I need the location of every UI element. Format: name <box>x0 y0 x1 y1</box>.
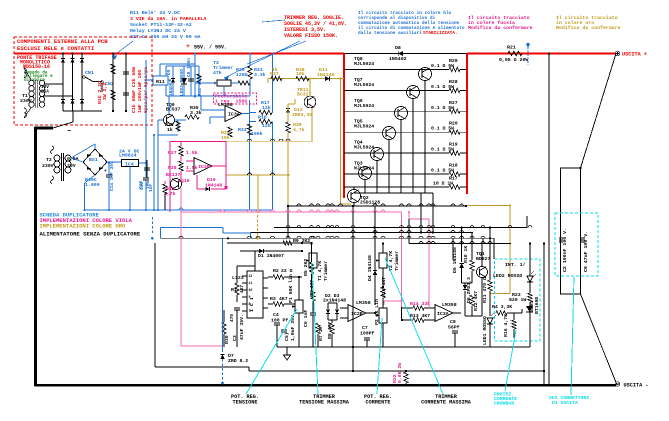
svg-text:C2 100nF 100 V.: C2 100nF 100 V. <box>562 228 568 272</box>
svg-text:C8 100n: C8 100n <box>186 58 192 77</box>
svg-text:230V: 230V <box>42 163 54 169</box>
svg-text:470: 470 <box>229 314 235 322</box>
svg-text:ALIMENTATORE SENZA DUPLICATORE: ALIMENTATORE SENZA DUPLICATORE <box>40 231 141 238</box>
svg-text:R28: R28 <box>168 165 177 171</box>
svg-text:0.1 Ω 5W: 0.1 Ω 5W <box>431 147 454 153</box>
svg-text:+: + <box>104 169 107 174</box>
svg-text:C5): C5) <box>284 332 290 341</box>
svg-text:1mF 100v1mF 100: 1mF 100v1mF 100 <box>137 70 143 113</box>
svg-text:T1 4,7K: T1 4,7K <box>317 261 323 281</box>
svg-text:CORRENTE MASSIMA: CORRENTE MASSIMA <box>421 400 472 406</box>
svg-text:LED2 ROSSO: LED2 ROSSO <box>493 273 522 279</box>
svg-text:R11 470: R11 470 <box>197 77 203 96</box>
svg-text:BC537: BC537 <box>166 107 181 113</box>
svg-text:D1 1N4007: D1 1N4007 <box>258 253 284 259</box>
svg-text:12: 12 <box>249 274 253 278</box>
svg-text:MDS150-16: MDS150-16 <box>23 64 50 70</box>
svg-text:820 1W: 820 1W <box>509 297 526 303</box>
svg-text:R21: R21 <box>507 45 516 51</box>
svg-text:4K7: 4K7 <box>279 296 288 302</box>
svg-text:12k: 12k <box>262 123 271 129</box>
svg-text:22 Ω: 22 Ω <box>281 268 293 274</box>
svg-text:2SD1128: 2SD1128 <box>360 200 380 206</box>
svg-text:R30: R30 <box>224 335 230 344</box>
svg-text:R16 4,7K: R16 4,7K <box>503 314 509 337</box>
svg-text:Relay LY3NJ DC 24 V: Relay LY3NJ DC 24 V <box>130 28 186 34</box>
svg-text:1N5402: 1N5402 <box>389 56 407 62</box>
svg-text:R33: R33 <box>238 127 247 133</box>
svg-text:12k: 12k <box>262 105 271 111</box>
svg-text:C4: C4 <box>273 312 279 318</box>
svg-text:3.3k: 3.3k <box>190 110 202 116</box>
svg-text:Modifica da confermare: Modifica da confermare <box>556 25 621 31</box>
svg-text:MJL5024: MJL5024 <box>354 61 374 67</box>
svg-text:11: 11 <box>249 281 253 285</box>
svg-text:10k: 10k <box>221 135 230 141</box>
svg-text:1.000: 1.000 <box>85 182 100 188</box>
svg-text:P1 50K lin: P1 50K lin <box>288 274 294 303</box>
svg-text:Socket PT11-13F-32-A2: Socket PT11-13F-32-A2 <box>130 22 192 28</box>
svg-text:R4 3,3K: R4 3,3K <box>492 304 512 310</box>
svg-text:R2: R2 <box>273 268 279 274</box>
svg-text:R11 RelA' 24 V.DC: R11 RelA' 24 V.DC <box>130 10 180 16</box>
svg-text:MJL5024: MJL5024 <box>354 82 374 88</box>
svg-text:DI USCITA: DI USCITA <box>552 400 578 406</box>
svg-text:25A: 25A <box>41 89 49 94</box>
svg-text:C6 1nF: C6 1nF <box>303 310 309 327</box>
svg-text:D5 1N4148: D5 1N4148 <box>452 247 458 273</box>
svg-text:6,8K 2W: 6,8K 2W <box>397 363 403 383</box>
svg-text:IMPLEMENTAZIONI COLORE ORO: IMPLEMENTAZIONI COLORE ORO <box>40 223 127 230</box>
svg-text:T2: T2 <box>46 157 52 163</box>
svg-text:0.1 Ω 5W: 0.1 Ω 5W <box>431 63 454 69</box>
svg-text:R27: R27 <box>168 150 177 156</box>
svg-text:BS1: BS1 <box>89 157 98 163</box>
svg-text:100k: 100k <box>251 131 263 137</box>
svg-text:0.1 Ω 5W: 0.1 Ω 5W <box>431 168 454 174</box>
svg-text:7: 7 <box>249 309 251 313</box>
svg-text:3 VIE da 10A. in PARALLELA: 3 VIE da 10A. in PARALLELA <box>130 16 206 22</box>
svg-text:IC4: IC4 <box>125 161 134 167</box>
svg-text:R13 4K7: R13 4K7 <box>410 313 430 319</box>
svg-text:ZRD3,3V: ZRD3,3V <box>292 112 312 118</box>
svg-text:D8: D8 <box>395 45 401 51</box>
svg-text:dalla tensione ausiliari: dalla tensione ausiliari <box>358 30 422 36</box>
svg-text:USCITA +: USCITA + <box>622 52 647 58</box>
svg-text:8: 8 <box>249 302 251 306</box>
svg-text:IC3B: IC3B <box>198 164 210 170</box>
svg-text:IC2A: IC2A <box>437 311 449 317</box>
svg-text:1k: 1k <box>167 127 173 133</box>
svg-text:0.1 Ω 5W: 0.1 Ω 5W <box>431 84 454 90</box>
svg-text:Modifica da confermare: Modifica da confermare <box>468 25 533 31</box>
svg-text:1N4148: 1N4148 <box>205 183 222 189</box>
svg-text:BC137: BC137 <box>166 172 181 178</box>
svg-text:TENSIONE: TENSIONE <box>233 400 258 406</box>
svg-text:VALORE FISSO 150K.: VALORE FISSO 150K. <box>284 33 338 39</box>
svg-text:INT. 1/: INT. 1/ <box>505 262 526 268</box>
svg-text:120Ω: 120Ω <box>236 72 248 78</box>
svg-text:1N4007: 1N4007 <box>168 79 174 96</box>
svg-text:20V: 20V <box>67 163 76 169</box>
svg-text:10k: 10k <box>296 71 305 77</box>
svg-text:ZRD 8.2: ZRD 8.2 <box>228 358 248 364</box>
svg-text:R1: R1 <box>231 287 237 293</box>
svg-text:100Pf: 100Pf <box>360 331 375 337</box>
svg-text:0,05 Ω 20W: 0,05 Ω 20W <box>499 57 528 63</box>
svg-text:LED1 ROSSO: LED1 ROSSO <box>482 316 488 345</box>
svg-text:2W 2,2: 2W 2,2 <box>102 83 108 100</box>
svg-text:D4 1N4148: D4 1N4148 <box>367 255 373 281</box>
svg-text:R10 1K: R10 1K <box>463 246 469 263</box>
svg-text:1nF: 1nF <box>148 184 154 192</box>
svg-text:47uF 35V.: 47uF 35V. <box>239 314 245 340</box>
svg-text:9: 9 <box>249 295 251 299</box>
svg-text:4,7k: 4,7k <box>293 127 305 133</box>
svg-text:C10: C10 <box>139 182 145 190</box>
svg-text:ESCLUSI RELE e CONTATTI: ESCLUSI RELE e CONTATTI <box>17 45 94 52</box>
svg-text:D9: D9 <box>166 69 172 75</box>
svg-text:R16: R16 <box>258 115 267 121</box>
svg-text:10 Ω 1W: 10 Ω 1W <box>433 181 453 187</box>
svg-text:LM358: LM358 <box>356 300 371 306</box>
svg-text:LM358: LM358 <box>442 302 457 308</box>
svg-text:STABILIZZATA.: STABILIZZATA. <box>423 30 458 36</box>
svg-text:LM0824: LM0824 <box>119 153 137 159</box>
svg-text:TQ10: TQ10 <box>178 178 190 184</box>
svg-text:Trimmer: Trimmer <box>394 251 400 271</box>
svg-text:MJL5024: MJL5024 <box>354 124 374 130</box>
svg-text:1.5k: 1.5k <box>186 150 198 156</box>
svg-text:COMPONENTI ESTERNI ALLA PCB: COMPONENTI ESTERNI ALLA PCB <box>17 38 108 45</box>
svg-text:1N4148: 1N4148 <box>317 72 334 78</box>
svg-text:10: 10 <box>249 288 253 292</box>
svg-text:0.1 Ω 5W: 0.1 Ω 5W <box>431 126 454 132</box>
svg-text:3.3k: 3.3k <box>254 72 266 78</box>
svg-text:47k: 47k <box>213 70 222 76</box>
svg-text:0.1 Ω 5W: 0.1 Ω 5W <box>431 105 454 111</box>
svg-text:CN1: CN1 <box>85 70 94 76</box>
svg-text:R5 2K2: R5 2K2 <box>303 259 309 276</box>
svg-text:BD827: BD827 <box>476 256 491 262</box>
svg-text:+: + <box>186 43 190 50</box>
svg-text:CORRENTE: CORRENTE <box>366 400 391 406</box>
svg-text:55V. / 99V.: 55V. / 99V. <box>194 45 227 51</box>
svg-text:−: − <box>67 128 71 136</box>
svg-text:USCITA -: USCITA - <box>624 383 649 389</box>
svg-text:1.5k: 1.5k <box>186 165 198 171</box>
svg-text:R3: R3 <box>270 296 276 302</box>
svg-text:LED3 ROSSO: LED3 ROSSO <box>179 69 185 96</box>
svg-text:MJL5024: MJL5024 <box>354 145 374 151</box>
svg-text:MJL5024: MJL5024 <box>354 103 374 109</box>
svg-text:IC3A: IC3A <box>228 112 240 118</box>
svg-text:D10: D10 <box>207 177 216 183</box>
svg-text:C8: C8 <box>450 319 456 325</box>
svg-text:R14 33k: R14 33k <box>410 301 430 307</box>
svg-text:4K7: 4K7 <box>239 285 245 293</box>
svg-text:TENSIONE MASSIMA: TENSIONE MASSIMA <box>299 400 350 406</box>
svg-text:C1b 50mF C2b 50m: C1b 50mF C2b 50m <box>131 67 137 113</box>
svg-text:C7: C7 <box>362 325 368 331</box>
svg-text:R11: R11 <box>156 79 165 85</box>
svg-text:1k: 1k <box>272 67 278 73</box>
svg-text:56Pf: 56Pf <box>448 325 460 331</box>
svg-text:BT169D: BT169D <box>534 297 540 314</box>
svg-text:C14 1MF 35V: C14 1MF 35V <box>109 161 115 191</box>
svg-text:CROWBAR: CROWBAR <box>494 401 514 407</box>
svg-text:Trimmer: Trimmer <box>323 261 329 281</box>
